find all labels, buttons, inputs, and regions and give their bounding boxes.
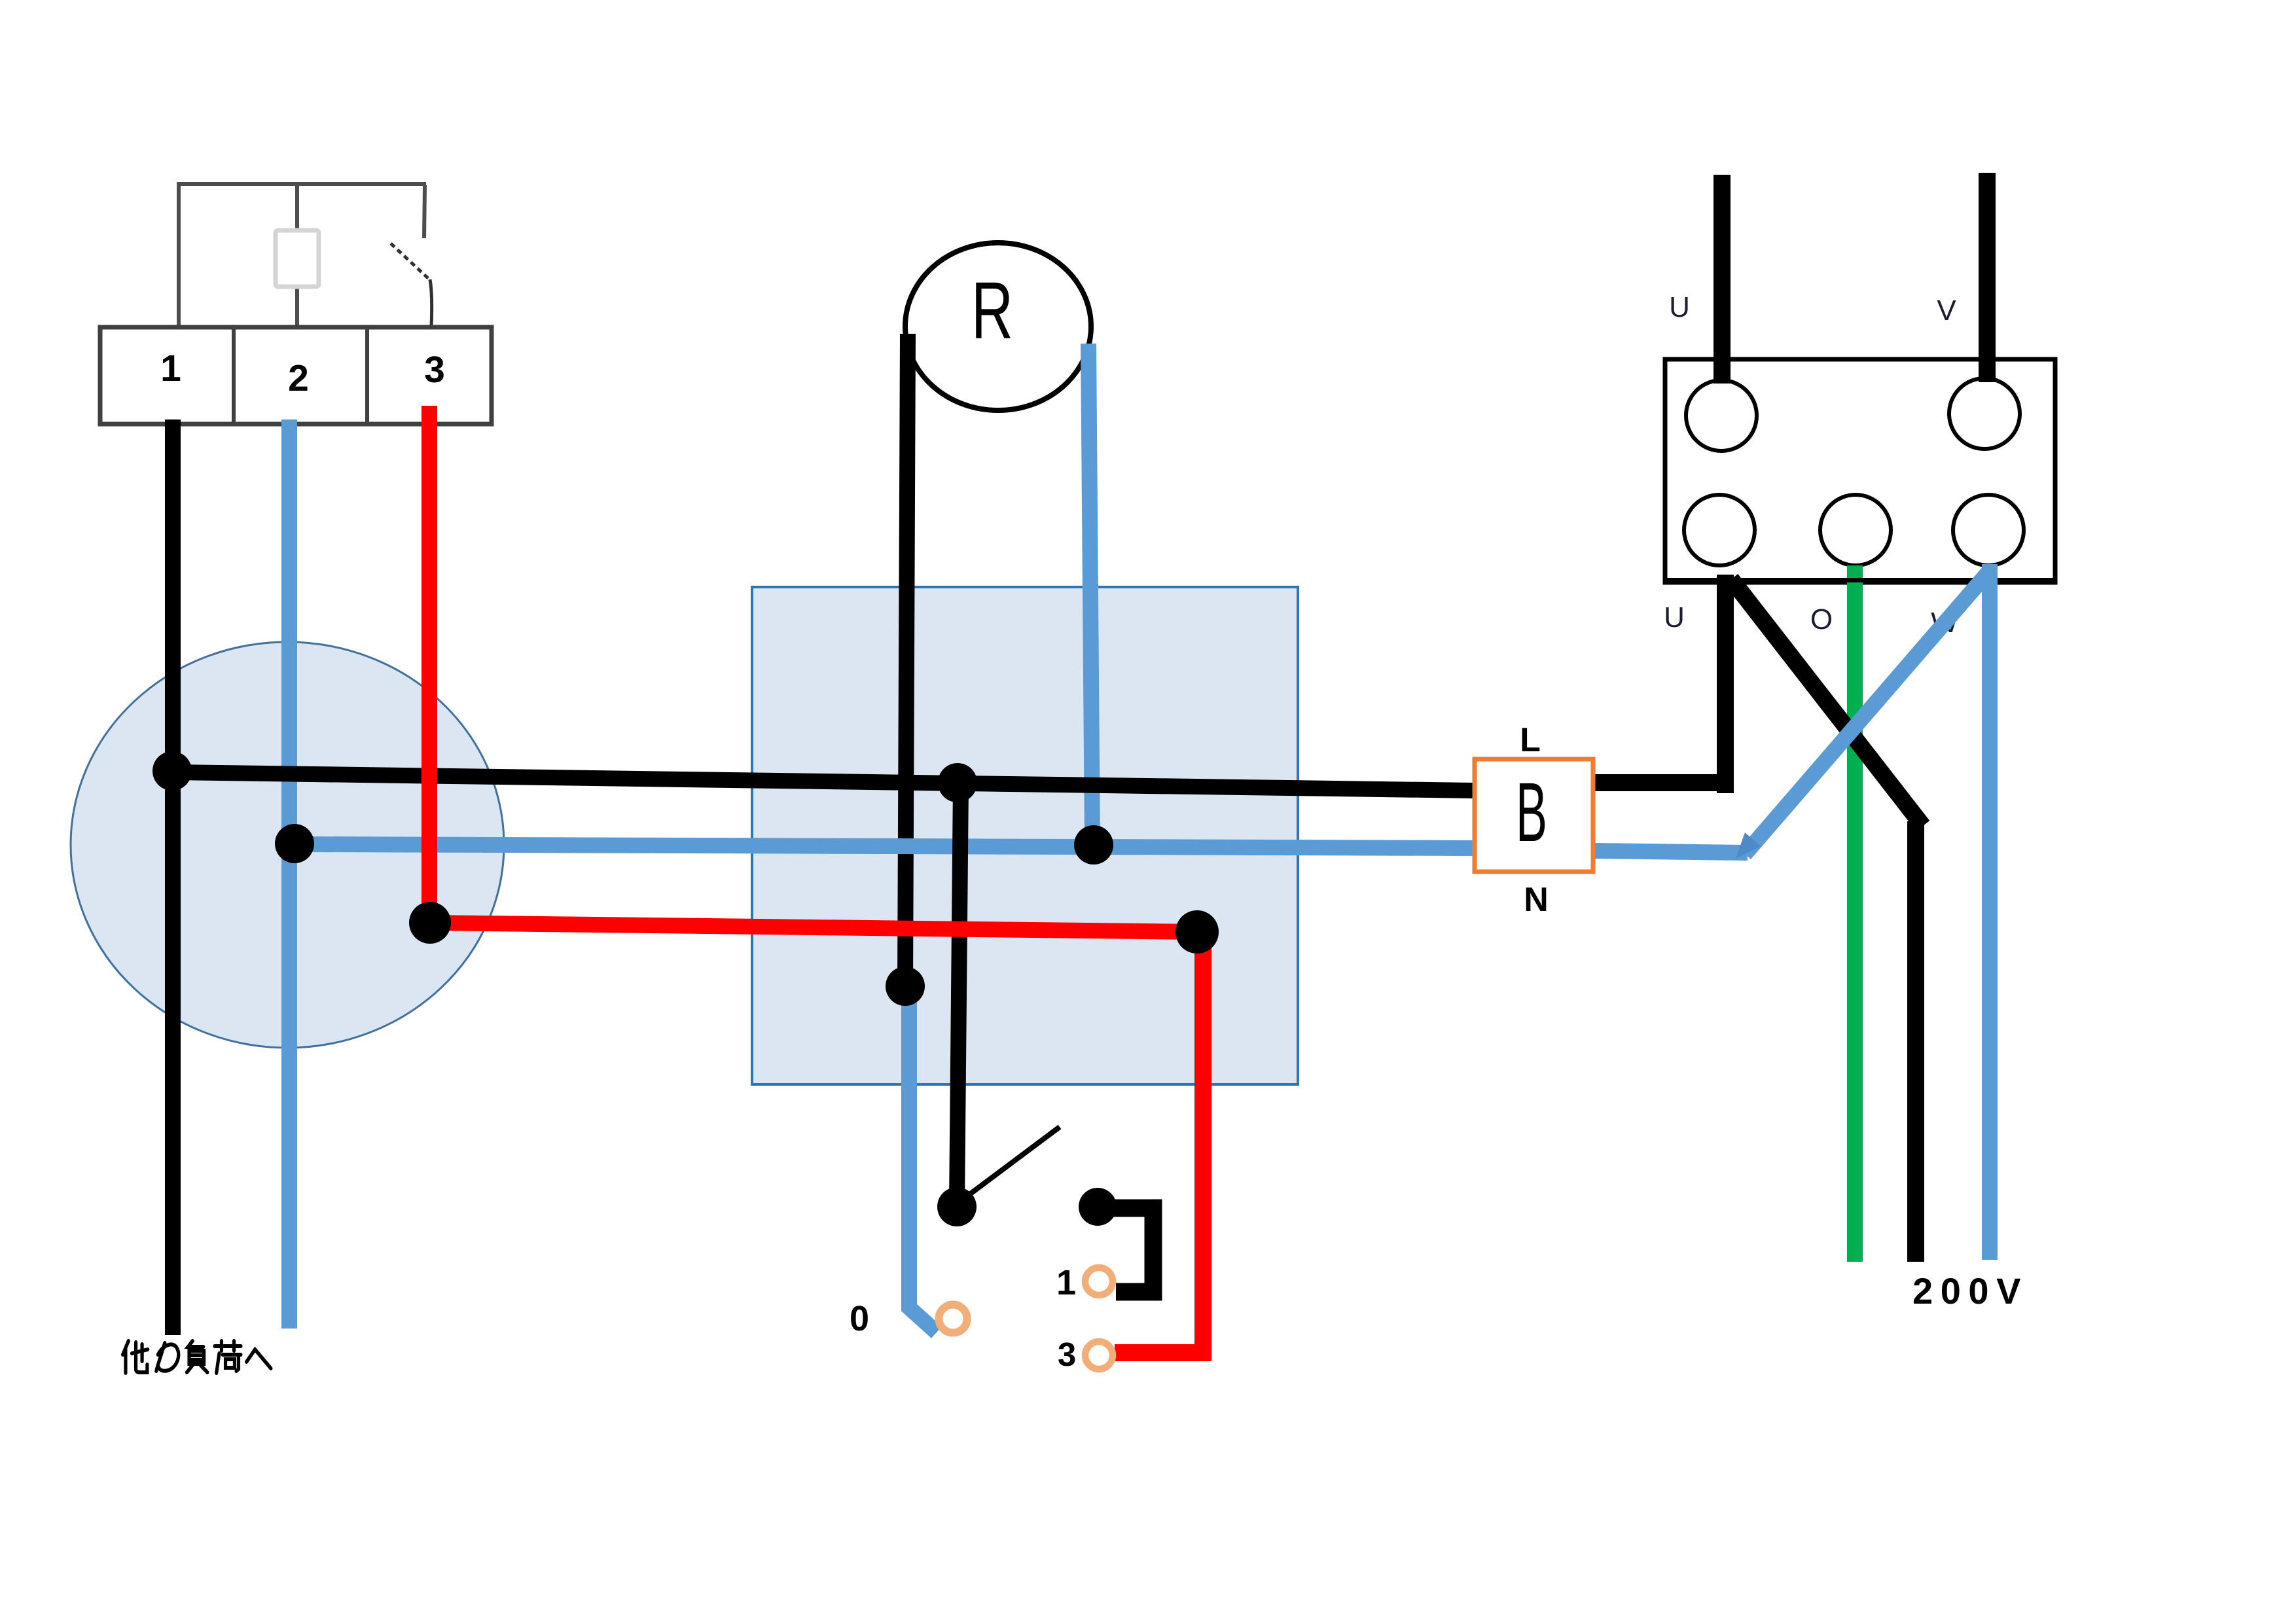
kanji FU [188,1341,203,1347]
switch terminal ring 1 [1085,1268,1113,1295]
switch terminal ring 0 [939,1305,967,1333]
black live horizontal to B [173,772,1475,791]
black wire from B to motor U [1593,774,1728,791]
black wire V top [1979,173,1996,382]
switch blade [958,1127,1060,1203]
black wire junction to switch pivot [957,783,961,1204]
blue neutral horizontal to B [296,844,1475,848]
svg-text:2: 2 [288,357,309,399]
blue arrowhead [1736,832,1761,859]
black bracket wire at switch contact 1 [1111,1208,1153,1292]
kana NO [156,1343,165,1371]
svg-text:1: 1 [160,348,181,389]
svg-text:B: B [1516,766,1547,859]
red vertical down to switch area [1194,932,1211,1361]
motor terminal circle top V [1949,378,2020,449]
kana HE [247,1349,271,1368]
motor terminal box bottom border over green [1665,578,2055,582]
black 200V vertical [1907,821,1924,1262]
junction dot live/switch feed [938,763,977,802]
kanji TA [123,1341,129,1355]
junction dot red corner [1175,910,1219,954]
svg-text:R: R [971,266,1013,356]
breaker internal wire top horizontal [177,182,426,186]
label to-other-loads (他の負荷へ) [123,1341,271,1373]
red bottom horizontal to terminal 3 ring [1115,1344,1211,1361]
black wire from lamp R left side down [905,334,908,985]
blue wire from lamp R right side down [1088,344,1092,843]
svg-text:0: 0 [850,1299,869,1338]
breaker switch blade [391,243,429,279]
motor terminal circle top U [1686,380,1757,451]
breaker internal wire below fuse [295,286,299,327]
junction dot lamp black/blue [886,967,925,1006]
lamp R circle [905,243,1091,410]
blue wire down to switch terminal 0 [909,988,937,1332]
motor terminal circle bottom U [1684,495,1755,565]
black 200V diagonal [1731,579,1923,826]
red wire from terminal 3 down [422,406,437,924]
junction dot terminal2/neutral [275,824,314,863]
svg-text:3: 3 [1058,1336,1076,1373]
fuse [276,230,319,287]
svg-text:N: N [1524,881,1549,919]
junction dot lamp blue/neutral [1074,825,1113,865]
green earth wire from O [1847,565,1863,1262]
terminal block 1-2-3 [100,327,492,424]
blue 200V vertical [1982,564,1998,1260]
motor terminal circle bottom W [1953,495,2024,565]
svg-text:2 0 0 V: 2 0 0 V [1912,1270,2020,1311]
svg-text:1: 1 [1056,1263,1076,1302]
breaker internal wire above fuse [295,184,299,231]
breaker B box [1475,759,1593,872]
breaker switch lower lead [430,279,432,327]
switch pivot dot [937,1187,977,1226]
svg-text:3: 3 [424,349,445,391]
svg-text:V: V [1937,294,1956,327]
junction dot terminal3/red [409,902,451,944]
blue diagonal to motor W [1745,571,1990,854]
junction dot terminal1/live [152,751,192,791]
svg-text:U: U [1664,601,1685,633]
junction-box ellipse (left) [71,642,504,1048]
blue wire from terminal 2 down [281,419,297,1329]
svg-text:O: O [1810,603,1833,635]
breaker internal wire right vertical [424,185,425,238]
junction-box square (middle) [752,587,1298,1084]
svg-text:L: L [1520,721,1541,759]
motor terminal box [1665,359,2055,582]
black wire motor U down [1717,575,1734,793]
black wire U top [1713,175,1731,383]
switch terminal ring 3 [1085,1342,1113,1369]
blue wire from B to motor W horizontal [1593,851,1748,853]
red horizontal [431,923,1198,932]
motor terminal circle bottom O [1820,495,1891,565]
breaker internal wire left vertical [177,184,181,327]
svg-text:U: U [1669,291,1690,323]
black wire from terminal 1 down [165,419,181,1335]
switch contact dot [1079,1188,1117,1226]
kanji KA [215,1344,241,1348]
